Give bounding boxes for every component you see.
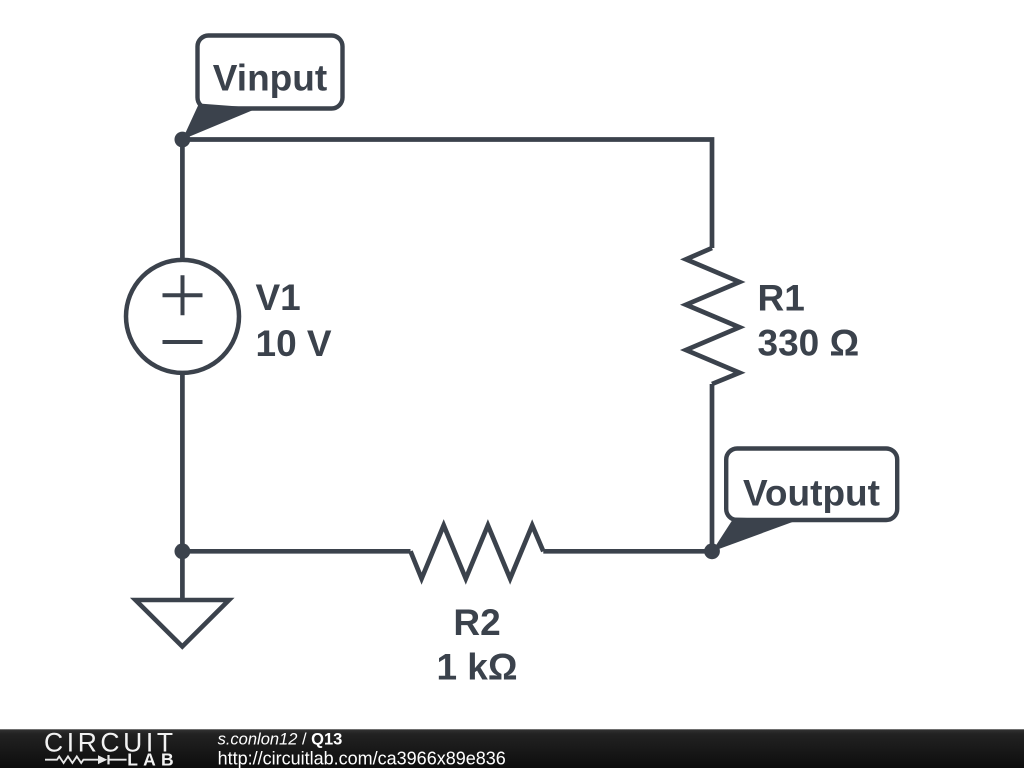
node Voutput flag bubble [726, 449, 897, 521]
node Voutput flag tail [712, 518, 798, 552]
svg-text:s.conlon12 / Q13: s.conlon12 / Q13 [218, 730, 343, 748]
V1 minus sign [163, 340, 203, 344]
wire: R1 bottom to node Voutput [710, 384, 715, 551]
node (bottom-left junction dot) [175, 543, 191, 559]
node Vinput flag tail [182, 104, 258, 140]
resistor R1 [686, 248, 740, 384]
CircuitLab logo resistor-diode line [45, 756, 98, 763]
svg-text:1 kΩ: 1 kΩ [436, 647, 517, 688]
node Vinput flag bubble [198, 36, 343, 109]
svg-text:Vinput: Vinput [213, 57, 327, 98]
svg-text:LAB: LAB [127, 750, 179, 768]
wire: Vinput node down to V1 top [180, 140, 185, 261]
svg-text:R2: R2 [453, 602, 500, 643]
wire top: node Vinput to top-right corner down to R1 top [182, 140, 712, 249]
wire: node Voutput to R2 right end [543, 549, 712, 554]
ground [136, 600, 230, 647]
svg-text:Voutput: Voutput [743, 472, 880, 513]
svg-text:10 V: 10 V [256, 323, 332, 364]
wire: ground stub [180, 551, 185, 600]
svg-text:V1: V1 [256, 277, 301, 318]
node B (Voutput junction dot) [704, 543, 720, 559]
node A (Vinput junction dot) [175, 132, 191, 148]
voltage source V1 circle [126, 260, 239, 373]
resistor R2 [411, 525, 544, 578]
footer bar [0, 729, 1024, 768]
svg-text:http://circuitlab.com/ca3966x8: http://circuitlab.com/ca3966x89e836 [218, 748, 506, 768]
svg-text:330 Ω: 330 Ω [758, 323, 860, 364]
wire: R2 left end to ground node [182, 549, 410, 554]
svg-text:R1: R1 [758, 277, 805, 318]
V1 plus sign [163, 275, 203, 315]
wire: V1 bottom to bottom-left node [180, 373, 185, 551]
